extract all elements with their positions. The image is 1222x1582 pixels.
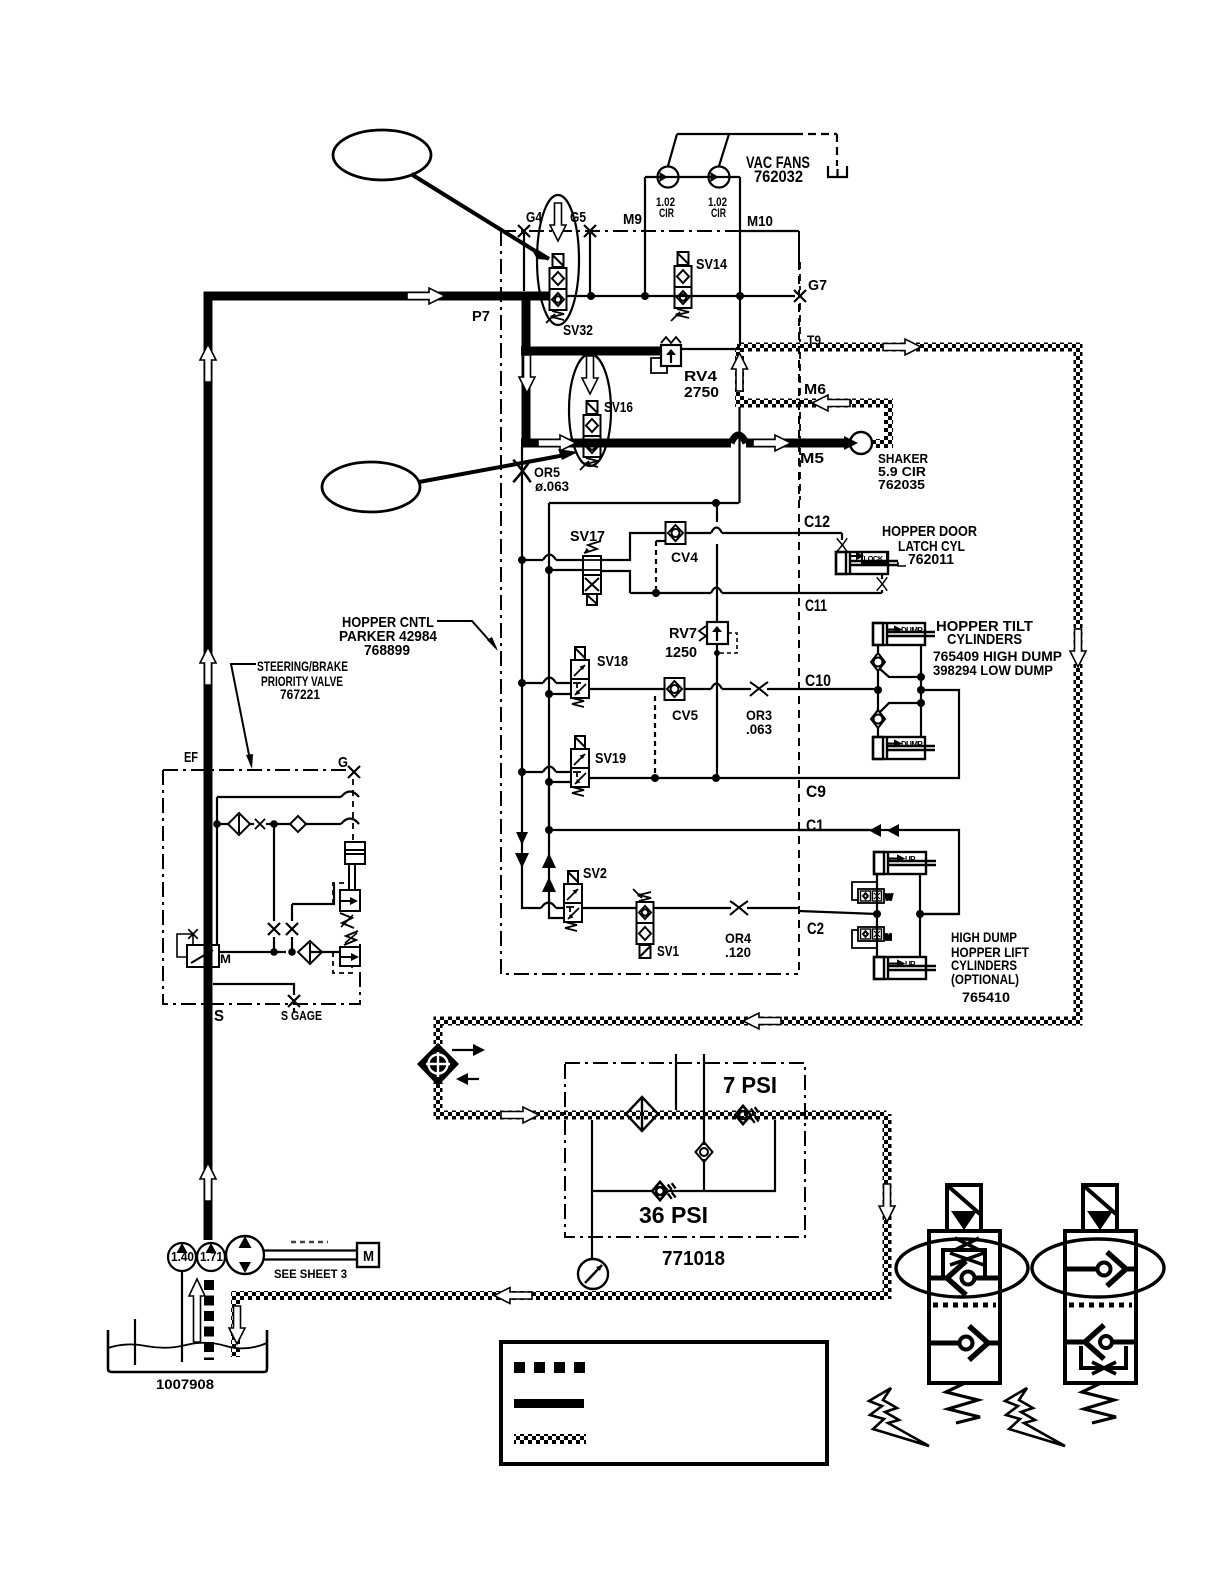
svg-text:C2: C2 (807, 919, 824, 938)
junction node (274,824) (270, 820, 278, 828)
junction dots (213, 292, 925, 956)
leader arrow steering/brake (231, 664, 256, 765)
wire at (583,570) (583, 569, 601, 571)
svg-text:.120: .120 (725, 944, 751, 960)
bracket + X top left (177, 934, 193, 957)
SV17 outs (601, 533, 665, 560)
wire from (842,533) (841, 533, 843, 552)
wire from (498,651) (487, 637, 498, 651)
svg-text:C11: C11 (805, 596, 827, 615)
vertical under M6 down to manifold feed (738, 407, 740, 503)
svg-text:762035: 762035 (878, 477, 925, 492)
junction node (549,570) (545, 566, 553, 574)
checkered return line horizontal at (872,439) (872, 439, 888, 448)
SV32 out to G7 (567, 295, 795, 297)
svg-text:1.40: 1.40 (171, 1249, 194, 1264)
wire from (522,868) (515, 853, 529, 868)
svg-text:CIR: CIR (659, 206, 674, 220)
box at (707,622) (707, 622, 728, 644)
junction node (549,830) (545, 826, 553, 834)
wire from (921,645) (920, 645, 922, 737)
svg-text:(OPTIONAL): (OPTIONAL) (951, 971, 1019, 987)
svg-text:C12: C12 (804, 512, 830, 531)
spool valve SV17 (solenoid below, spring top) (583, 541, 601, 605)
771018 manifold (675, 1054, 677, 1110)
wire from (292,937) (291, 937, 293, 952)
port plug X at (590,231) (584, 225, 596, 237)
CV5 pilot dashed (654, 696, 656, 778)
SV18 out / CV5 / OR3 / C10 (589, 688, 664, 690)
wire from (858,900) (852, 882, 877, 900)
flow arrow at (590,375) (582, 356, 598, 394)
wire from (704,1142) (696, 1142, 713, 1162)
svg-text:767221: 767221 (280, 686, 320, 702)
SV18 feeds (522, 682, 571, 684)
wire from (543,772) (543, 767, 556, 773)
solenoid valve SV16 (580, 401, 601, 470)
wire from (479,1079) (462, 1078, 479, 1080)
wire from (661,358) (651, 358, 667, 373)
tank (108, 1330, 267, 1372)
priority spool (187, 945, 219, 967)
wire from (851,556) (851, 554, 862, 559)
wire from (108,1348) (108, 1343, 267, 1349)
lift cylinders loop (876, 874, 878, 957)
wire from (585,1283) (585, 1265, 602, 1283)
wire from (108,1330) (108, 1330, 267, 1372)
wire from (668,166) (668, 134, 677, 166)
circle (438,1064) (429, 1055, 448, 1074)
pilot check W (852, 882, 893, 903)
wire from (359,957) (351, 953, 359, 961)
check valve at (878,719) (871, 710, 885, 728)
wire from (799,911) (799, 911, 877, 914)
junction node (522,683) (518, 679, 526, 687)
SV19 feeds (522, 771, 571, 773)
wire from (950,1253) (950, 1253, 984, 1265)
wire from (274,824) (273, 824, 275, 921)
svg-text:M5: M5 (800, 450, 824, 467)
tilt cylinders (873, 623, 935, 645)
filter 2 (298, 941, 322, 964)
SV17 feeds (522, 559, 583, 561)
spring (1082, 1383, 1116, 1423)
wire from (419,482) (419, 455, 565, 482)
wire from (951,1211) (951, 1211, 977, 1230)
svg-text:S: S (214, 1008, 224, 1025)
checkered return line vertical at (231,1295) (231, 1295, 240, 1357)
wire from (1092,1362) (1092, 1362, 1116, 1374)
wire from (358,901) (350, 897, 358, 905)
junction node (716,778) (712, 774, 720, 782)
flow arrow at (902,347) (883, 339, 921, 355)
circle (593,1274) (578, 1259, 608, 1289)
circle (1106,1342) (1100, 1336, 1112, 1348)
x=549 down to SV2 (548, 782, 550, 830)
svg-text:T9: T9 (807, 332, 821, 348)
wire at (1084,1186) (1084, 1186, 1116, 1214)
wire from (874,893) (874, 893, 880, 899)
svg-text:RV7: RV7 (669, 625, 697, 642)
bottom-right enlarged valve B (1065, 1185, 1136, 1423)
wire from (541,908) (541, 903, 556, 909)
wire from (656,541) (656, 540, 666, 542)
svg-text:SEE SHEET 3: SEE SHEET 3 (274, 1267, 347, 1281)
wire from (536,251) (536, 251, 549, 259)
svg-text:CYLINDERS: CYLINDERS (947, 631, 1022, 648)
wire from (898,562) (898, 562, 906, 566)
wire at (583,575) (583, 574, 601, 576)
circle (719,177) (709, 167, 730, 188)
wire from (740,177) (739, 177, 741, 346)
port plug X at (292,929) (286, 923, 298, 935)
spring check valve at (660,1191) (652, 1182, 675, 1200)
wire from (880,669) (880, 669, 921, 677)
wire from (526,292) (522, 292, 531, 447)
box at (534,1362) (534, 1362, 545, 1373)
spring (946, 1383, 980, 1423)
CV4 line C12 (686, 532, 842, 534)
box at (554,1362) (554, 1362, 565, 1373)
wire from (592,1191) (592, 1120, 775, 1191)
wire at (345,850) (345, 849, 365, 851)
box at (1065,1231) (1065, 1231, 1136, 1383)
wire from (920,914) (920, 913, 959, 915)
wire from (988,1343) (969, 1326, 988, 1360)
bottom loop checker (434, 1017, 1083, 1026)
tilt check valves (871, 653, 885, 671)
hopper cntl manifold box (501, 230, 799, 232)
junction node (921,703) (917, 699, 925, 707)
svg-text:SV18: SV18 (597, 653, 628, 670)
leader arrow hopper cntl (437, 621, 496, 648)
wire from (704,1159) (703, 1159, 705, 1191)
flow arrow at (739,372) (732, 353, 748, 391)
cooler air arrows (452, 1049, 479, 1051)
wire from (719,166) (719, 134, 729, 166)
svg-text:1.71: 1.71 (200, 1249, 223, 1264)
flow arrow at (772,443) (753, 435, 791, 451)
flow arrow at (208,666) (200, 647, 216, 685)
flow arrow at (831,403) (812, 395, 850, 411)
legend box (501, 1342, 827, 1464)
svg-text:762032: 762032 (754, 167, 803, 186)
junction node (217,824) (213, 820, 221, 828)
wire at (340,957) (340, 956, 353, 958)
wire from (717,641) (716, 627, 718, 641)
wire from (888,743) (888, 741, 900, 746)
hollow flow arrows (407, 288, 445, 304)
wire from (521,351) (521, 347, 661, 356)
wire at (587,595) (587, 595, 597, 604)
wire at (933,1305) (933, 1303, 996, 1308)
junction node (645,296) (641, 292, 649, 300)
circle (968,1278) (962, 1272, 975, 1285)
box at (929,1231) (929, 1231, 1000, 1383)
junction node (740,296) (736, 292, 744, 300)
wire at (583,560) (583, 559, 601, 561)
wire from (584,553) (584, 548, 590, 553)
wire at (1126,1269) (1126, 1267, 1136, 1272)
relief valve RV4 (651, 337, 681, 373)
drive shaft to motor (264, 1251, 357, 1260)
svg-text:EF: EF (184, 749, 198, 766)
flow direction solid triangles on C1 (869, 824, 881, 837)
svg-text:M9: M9 (623, 211, 642, 228)
orifice X on latch lines (837, 538, 848, 552)
svg-text:C1: C1 (806, 816, 824, 835)
wire at (340,901) (340, 900, 352, 902)
svg-text:LOCK: LOCK (864, 554, 884, 563)
circle (966,1343) (960, 1337, 973, 1350)
hopper door latch cylinder (836, 552, 898, 574)
wire from (645,177) (644, 177, 646, 296)
pressure gauge (578, 1259, 608, 1289)
check valve CV5 (665, 678, 685, 700)
manifold right dashed edge (798, 262, 800, 974)
svg-text:M10: M10 (747, 213, 773, 230)
svg-text:DUMP: DUMP (901, 626, 923, 635)
7psi / 36psi checks (735, 1106, 758, 1124)
checkered return line vertical at (433,1082) (434, 1082, 443, 1114)
checkered return line vertical at (433,1020) (434, 1020, 443, 1048)
solenoid valve SV32 (546, 254, 567, 323)
svg-text:SV1: SV1 (657, 943, 679, 960)
flow arrow at (237,1325) (229, 1306, 245, 1344)
svg-text:CV5: CV5 (672, 707, 698, 723)
flow arrow at (513,1295) (494, 1288, 532, 1304)
pilot check M (852, 927, 892, 948)
svg-text:UP: UP (905, 960, 916, 969)
shaker inlet solid arrowhead (844, 436, 858, 450)
flow arrow at (1078,648) (1070, 629, 1086, 667)
callout balloon 1 (333, 130, 431, 180)
priority valve box (163, 769, 350, 771)
wire from (865,892) (863, 893, 869, 900)
orifice x (255, 819, 265, 829)
SV2 feed from x=522 (522, 902, 564, 908)
steering priority block components (177, 813, 365, 973)
wire from (795,134) (795, 134, 837, 166)
wire from (889,858) (889, 856, 903, 861)
wire from (799,231) (798, 231, 800, 262)
spool valve SV19 (571, 736, 589, 796)
svg-text:CV4: CV4 (671, 549, 698, 565)
M10 corner to G7 dashes (740, 230, 799, 232)
wire from (1126,1269) (1107, 1252, 1126, 1286)
wire from (245,1236) (239, 1236, 252, 1248)
lightning bolts (869, 1388, 929, 1446)
wire from (943,1276) (943, 1250, 985, 1276)
right checker vertical (1074, 343, 1083, 1025)
junction node (921,690) (917, 686, 925, 694)
svg-text:398294 LOW DUMP: 398294 LOW DUMP (933, 662, 1053, 678)
wire from (501,231) (501, 231, 798, 974)
flow arrow at (208,363) (200, 344, 216, 382)
wire from (274,937) (273, 937, 275, 952)
wire from (193,1342) (189, 1279, 205, 1342)
box at (872,929) (873, 929, 882, 939)
wire from (291,1242) (291, 1241, 328, 1243)
wire from (292,904) (292, 884, 334, 904)
wire from (345,943) (345, 933, 357, 943)
wire from (865,930) (863, 931, 869, 938)
wire from (677,134) (677, 133, 795, 135)
filter in 771018 (626, 1097, 658, 1131)
top section: orifice above bracket (955, 1238, 979, 1250)
svg-text:RV4: RV4 (684, 368, 718, 385)
junction node (865,934) (864, 932, 867, 935)
junction node (878,690) (874, 686, 882, 694)
junction node (656,593) (652, 589, 660, 597)
wire from (671,363) (670, 350, 672, 363)
steering relief (340, 947, 360, 966)
junction node (591,296) (587, 292, 595, 300)
orifice OR3 (750, 682, 768, 696)
wire from (1087,1211) (1087, 1211, 1113, 1230)
C1 line (549, 830, 959, 914)
wire from (217,797) (216, 797, 218, 945)
G column dashed in priority box (352, 779, 354, 842)
wire from (800,352) (799, 352, 801, 500)
ellipse around SV16 (569, 354, 611, 466)
wire at (988,1343) (988, 1341, 1000, 1346)
wire from (592,1120) (591, 1120, 593, 1260)
svg-text:S GAGE: S GAGE (281, 1008, 322, 1023)
svg-text:SV14: SV14 (696, 256, 728, 273)
port plug X at (800,296) (794, 290, 806, 302)
SV2 to SV1 to OR4 to C2 (582, 907, 636, 909)
wire from (704,1054) (703, 1054, 705, 1145)
box at (947,1185) (947, 1185, 981, 1231)
checkered return line horizontal at (231,1291) (231, 1291, 887, 1300)
wire from (549,570) (549, 569, 583, 571)
wire from (1027,1388) (1005, 1388, 1065, 1446)
wire from (549,782) (549, 781, 571, 783)
tilt cylinders loop (877, 645, 879, 737)
T9 checker line (737, 343, 1082, 352)
wire at (310,943) (309, 943, 311, 962)
svg-text:G7: G7 (808, 277, 827, 294)
wire from (874,931) (874, 931, 880, 937)
flow arrow at (208,1182) (200, 1163, 216, 1201)
box at (514,1399) (514, 1399, 584, 1408)
wire from (245,1273) (239, 1262, 251, 1273)
lower check + orifice bracket below (1065, 1340, 1085, 1345)
wire from (858,930) (852, 930, 877, 948)
port plug X at (354,772) (348, 766, 360, 778)
box at (583,556) (583, 556, 601, 594)
vac fans circuit (645, 176, 740, 178)
wire at (1112,1342) (1112, 1340, 1136, 1345)
wire from (880,712) (880, 703, 921, 712)
wire from (294,1008) (293, 1008, 295, 1013)
wire from (671,349) (666, 349, 676, 355)
box at (862,552) (862, 552, 887, 563)
svg-text:G: G (338, 754, 348, 771)
wire from (590,233) (589, 233, 591, 296)
svg-text:.063: .063 (746, 721, 772, 737)
OR5 drop line (521, 447, 523, 902)
C2/C1 at cylinders (798, 829, 869, 831)
top check (1065, 1267, 1097, 1272)
svg-text:SV17: SV17 (570, 528, 605, 545)
wire from (549,260) (531, 248, 549, 260)
M6 drop to shaker (884, 402, 893, 448)
wire from (333,904) (333, 883, 347, 904)
box at (574,1362) (574, 1362, 585, 1373)
svg-text:7 PSI: 7 PSI (723, 1072, 777, 1098)
wire from (887,830) (887, 824, 899, 837)
wire from (661,343) (661, 337, 681, 343)
wire from (219,952) (219, 951, 341, 953)
port plug X at (294,1001) (288, 995, 300, 1007)
accumulator / brake cyl (345, 842, 365, 864)
vac fan tank symbol (828, 166, 847, 177)
wire from (438,1052) (426, 1052, 450, 1077)
pump suction thin (181, 1271, 183, 1362)
X plugs on verticals (268, 923, 280, 935)
wire from (746,443) (746, 439, 847, 448)
spool valve SV18 (571, 647, 589, 707)
svg-text:C9: C9 (806, 782, 826, 801)
svg-text:P7: P7 (472, 308, 490, 325)
cooler air arrows heads (473, 1044, 485, 1056)
flow arrow at (762,1021) (743, 1013, 781, 1029)
wire from (711,533) (711, 528, 722, 534)
svg-text:36 PSI: 36 PSI (639, 1202, 708, 1228)
flow arrow at (520,1115) (501, 1107, 539, 1123)
junction node (655,778) (651, 774, 659, 782)
junction node (920,914) (916, 910, 924, 918)
wire P supply: top horizontal + left vertical (208, 292, 847, 1240)
solenoid valve SV1 (633, 889, 654, 958)
svg-text:771018: 771018 (662, 1248, 725, 1270)
svg-text:HIGH DUMP: HIGH DUMP (951, 929, 1017, 945)
wire at (355,864) (354, 864, 356, 890)
wire from (659,172) (660, 172, 668, 182)
cooler (417, 1043, 459, 1086)
box at (858,889) (858, 889, 884, 903)
check ball+seat (929, 1276, 947, 1281)
junction node (865,896) (864, 894, 867, 897)
svg-text:1007908: 1007908 (156, 1376, 214, 1392)
wire from (340,913) (340, 913, 354, 928)
checkered return line horizontal at (433,1110) (434, 1111, 887, 1120)
checkered return line horizontal at (514,1434) (514, 1434, 586, 1444)
svg-text:UP: UP (905, 855, 916, 864)
C11 line (630, 592, 882, 594)
wire from (341,797) (341, 792, 359, 798)
svg-text:ø.063: ø.063 (535, 478, 569, 494)
wire from (888,629) (888, 627, 900, 632)
svg-text:1250: 1250 (665, 644, 697, 661)
flow arrow at (557,443) (538, 435, 576, 451)
circle (668,177) (658, 167, 679, 188)
relief valve RV7 (699, 622, 737, 653)
771018 box (565, 1063, 805, 1237)
wire from (411,174) (411, 174, 540, 254)
check diamond (290, 816, 306, 832)
box at (514,1362) (514, 1362, 525, 1373)
priority valve internals (217, 796, 341, 798)
flow arrow at (527,374) (519, 355, 535, 393)
wire from (213,950) (206, 950, 213, 956)
circle (245,1255) (226, 1236, 264, 1274)
wire from (549,296) (208, 296, 549, 1240)
wire from (706,626) (699, 626, 706, 641)
junction node (716,503) (712, 499, 720, 507)
